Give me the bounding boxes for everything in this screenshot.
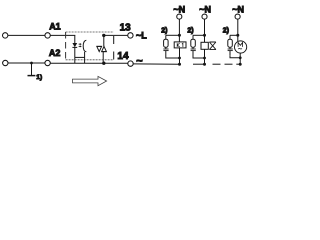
wire receiver lead down: [84, 52, 86, 58]
svg-text:~N: ~N: [232, 4, 244, 14]
load bus dashed continuation: [193, 63, 205, 65]
suppressor R/C branch2: [192, 35, 194, 39]
suppressor R/C branch3: [229, 35, 231, 39]
svg-text:~N: ~N: [173, 4, 185, 14]
wire A1 left segment: [8, 34, 45, 36]
wire A1 to module: [51, 34, 76, 36]
wire valve bottom: [204, 49, 206, 64]
svg-text:14: 14: [117, 51, 129, 62]
wire module bottom bar: [75, 56, 85, 58]
node triac top junction: [102, 34, 105, 37]
triac Q1: [97, 46, 102, 51]
wire branch2 T-bar: [193, 34, 205, 36]
svg-text:A2: A2: [49, 48, 61, 58]
svg-text:A1: A1: [49, 22, 61, 32]
LED D1 (input diode): [72, 43, 77, 47]
terminal circle A2-right: [45, 60, 50, 65]
relay coil K1: [174, 42, 186, 48]
wire legs to A2 line: [74, 57, 76, 63]
node branch1 bus: [178, 63, 181, 66]
wire branch1 T-bar: [166, 34, 180, 36]
motor M1: [235, 41, 247, 53]
node branch2 T: [203, 34, 206, 37]
node branch3 bus: [239, 63, 242, 66]
signal direction arrow: [73, 76, 107, 85]
node branch3 T: [236, 34, 239, 37]
wire branch1 bottom bar: [166, 56, 180, 58]
wire LED cathode down: [74, 47, 76, 57]
node branch1 T: [178, 34, 181, 37]
module dashed box: [66, 31, 114, 33]
svg-text:2): 2): [223, 28, 229, 35]
node triac bottom junction: [102, 62, 105, 65]
svg-text:2): 2): [161, 28, 167, 35]
wire branch3 bottom bar: [230, 56, 240, 58]
svg-text:~N: ~N: [199, 4, 211, 14]
wire ground drop: [31, 63, 33, 75]
wire branch2 drop: [204, 20, 206, 43]
svg-text:13: 13: [120, 23, 132, 34]
node branch1 bottom: [178, 57, 181, 60]
node ground junction: [30, 62, 33, 65]
wire A2 to terminal 14: [51, 62, 128, 64]
wire output 13: [104, 34, 128, 36]
wire triac bottom down: [102, 52, 104, 64]
ground bar: [28, 75, 36, 77]
wire A2 / 14 line: [8, 62, 45, 64]
terminal circle A1-right: [45, 33, 50, 38]
svg-text:~: ~: [136, 56, 143, 68]
opto receiver U1: [83, 40, 86, 52]
wire K1 bottom: [179, 48, 181, 64]
wire motor bottom: [239, 53, 241, 64]
wire branch3 T-bar: [230, 34, 238, 36]
suppressor R/C branch1: [165, 35, 167, 39]
node branch3 bottom: [239, 56, 242, 59]
terminal circle 14: [128, 61, 133, 66]
svg-text:2): 2): [187, 28, 193, 35]
wire branch1 drop: [178, 20, 180, 42]
wire input corner down: [74, 35, 76, 43]
svg-text:1): 1): [36, 74, 42, 81]
svg-text:~L: ~L: [136, 30, 147, 40]
LED emission arrows: [79, 43, 81, 44]
terminal circle A2-left: [3, 60, 8, 65]
wire branch3 drop: [237, 20, 239, 42]
valve coil Y1: [201, 42, 208, 49]
wire branch2 bottom bar: [193, 56, 205, 58]
terminal circle A1-left: [2, 33, 7, 38]
terminal circle 13: [128, 33, 133, 38]
valve body: [209, 42, 216, 50]
node branch2 bottom: [203, 57, 206, 60]
node branch2 bus: [203, 63, 206, 66]
load bus from 14: [133, 63, 179, 65]
wire triac branch down: [103, 35, 105, 46]
